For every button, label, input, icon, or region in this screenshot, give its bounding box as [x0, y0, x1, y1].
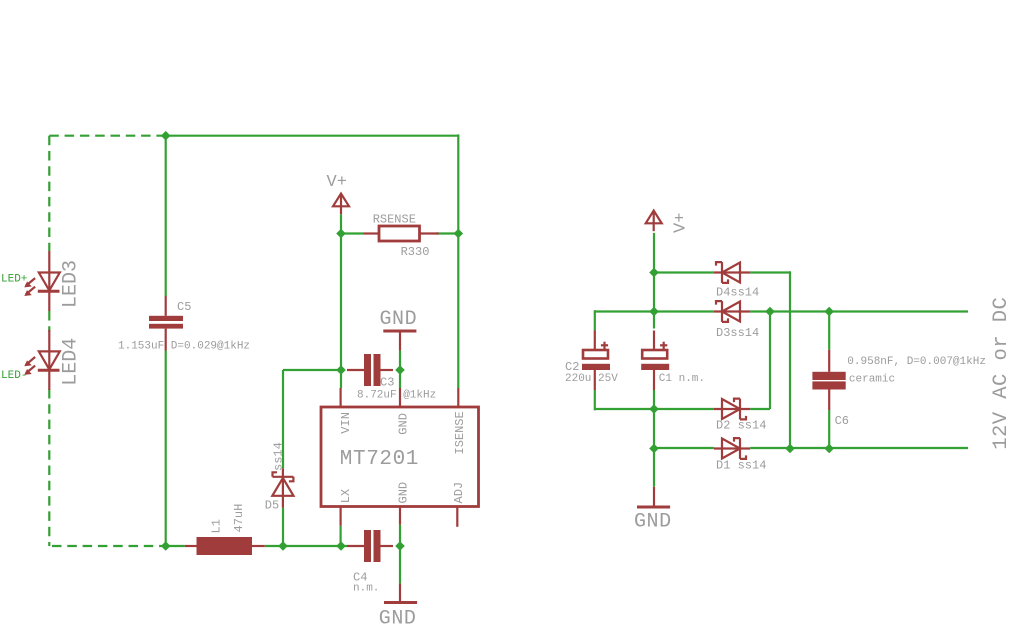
- svg-text:L1: L1: [210, 519, 224, 533]
- svg-text:12V AC or DC: 12V AC or DC: [990, 297, 1013, 450]
- svg-text:LED+: LED+: [1, 273, 27, 285]
- svg-text:D1 ss14: D1 ss14: [716, 459, 766, 473]
- svg-text:D5: D5: [265, 499, 279, 513]
- svg-text:ss14: ss14: [272, 442, 286, 471]
- svg-text:n.m.: n.m.: [353, 583, 379, 595]
- svg-text:C2: C2: [565, 360, 579, 374]
- svg-text:GND: GND: [379, 608, 417, 630]
- svg-text:8.72uF @1kHz: 8.72uF @1kHz: [357, 390, 436, 402]
- svg-text:V+: V+: [672, 213, 691, 233]
- svg-text:GND: GND: [397, 482, 411, 504]
- svg-text:GND: GND: [634, 511, 672, 534]
- svg-text:1.153uF D=0.029@1kHz: 1.153uF D=0.029@1kHz: [118, 341, 250, 353]
- svg-text:MT7201: MT7201: [340, 448, 419, 471]
- svg-text:GND: GND: [397, 413, 411, 435]
- svg-text:V+: V+: [327, 173, 347, 192]
- svg-text:RSENSE: RSENSE: [373, 213, 416, 227]
- svg-text:R330: R330: [401, 245, 430, 259]
- svg-text:D2 ss14: D2 ss14: [716, 419, 766, 433]
- svg-text:VIN: VIN: [339, 412, 353, 434]
- svg-text:ceramic: ceramic: [849, 374, 895, 386]
- svg-text:C3: C3: [380, 376, 394, 390]
- svg-text:D3ss14: D3ss14: [716, 326, 759, 340]
- svg-text:47uH: 47uH: [232, 504, 246, 533]
- svg-text:0.958nF, D=0.007@1kHz: 0.958nF, D=0.007@1kHz: [847, 356, 986, 368]
- svg-text:C5: C5: [177, 300, 191, 314]
- svg-text:C6: C6: [835, 414, 849, 428]
- svg-text:LED-: LED-: [1, 370, 27, 382]
- svg-text:ADJ: ADJ: [452, 482, 466, 504]
- svg-text:220u 25V: 220u 25V: [565, 373, 618, 385]
- svg-text:ISENSE: ISENSE: [453, 411, 467, 454]
- svg-text:C1 n.m.: C1 n.m.: [659, 373, 705, 385]
- svg-text:LED3: LED3: [60, 260, 83, 308]
- svg-text:D4ss14: D4ss14: [716, 286, 759, 300]
- svg-text:LED4: LED4: [60, 338, 83, 386]
- svg-text:LX: LX: [339, 489, 353, 503]
- svg-text:GND: GND: [380, 308, 418, 331]
